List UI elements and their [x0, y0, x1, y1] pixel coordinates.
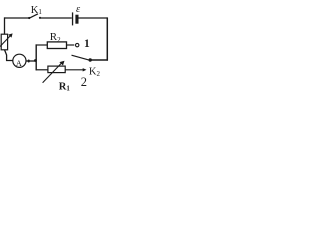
resistor R2	[47, 42, 66, 49]
rheostat R (left)	[0, 33, 13, 49]
wire meter to branch bar	[26, 60, 36, 62]
node contact 1	[76, 43, 79, 46]
wire top-left segment	[4, 17, 29, 19]
battery cell	[72, 12, 79, 25]
node branch junction	[34, 59, 37, 62]
wire to R2	[36, 44, 48, 46]
switch K2 blade	[72, 55, 91, 60]
rheostat R1	[43, 61, 66, 83]
wire to R1	[36, 69, 48, 71]
wire R2 to contact 1	[67, 44, 75, 46]
wire top-right segment	[79, 17, 108, 19]
wire rheostat to meter	[5, 50, 14, 61]
node meter output tick	[28, 60, 30, 63]
wire switch pole horizontal	[90, 59, 109, 61]
node switch pole junction	[89, 58, 92, 61]
wire right vertical	[106, 17, 108, 60]
wire branch bar vertical	[35, 44, 37, 70]
svg-text:A: A	[16, 59, 22, 68]
wire left vertical upper	[4, 17, 6, 34]
svg-text:2: 2	[81, 75, 87, 89]
wire top-middle segment	[41, 17, 72, 19]
svg-text:1: 1	[84, 38, 90, 50]
ammeter A	[13, 54, 26, 68]
switch K1	[28, 14, 41, 19]
wire R1 to contact 2 arrow	[65, 68, 86, 71]
